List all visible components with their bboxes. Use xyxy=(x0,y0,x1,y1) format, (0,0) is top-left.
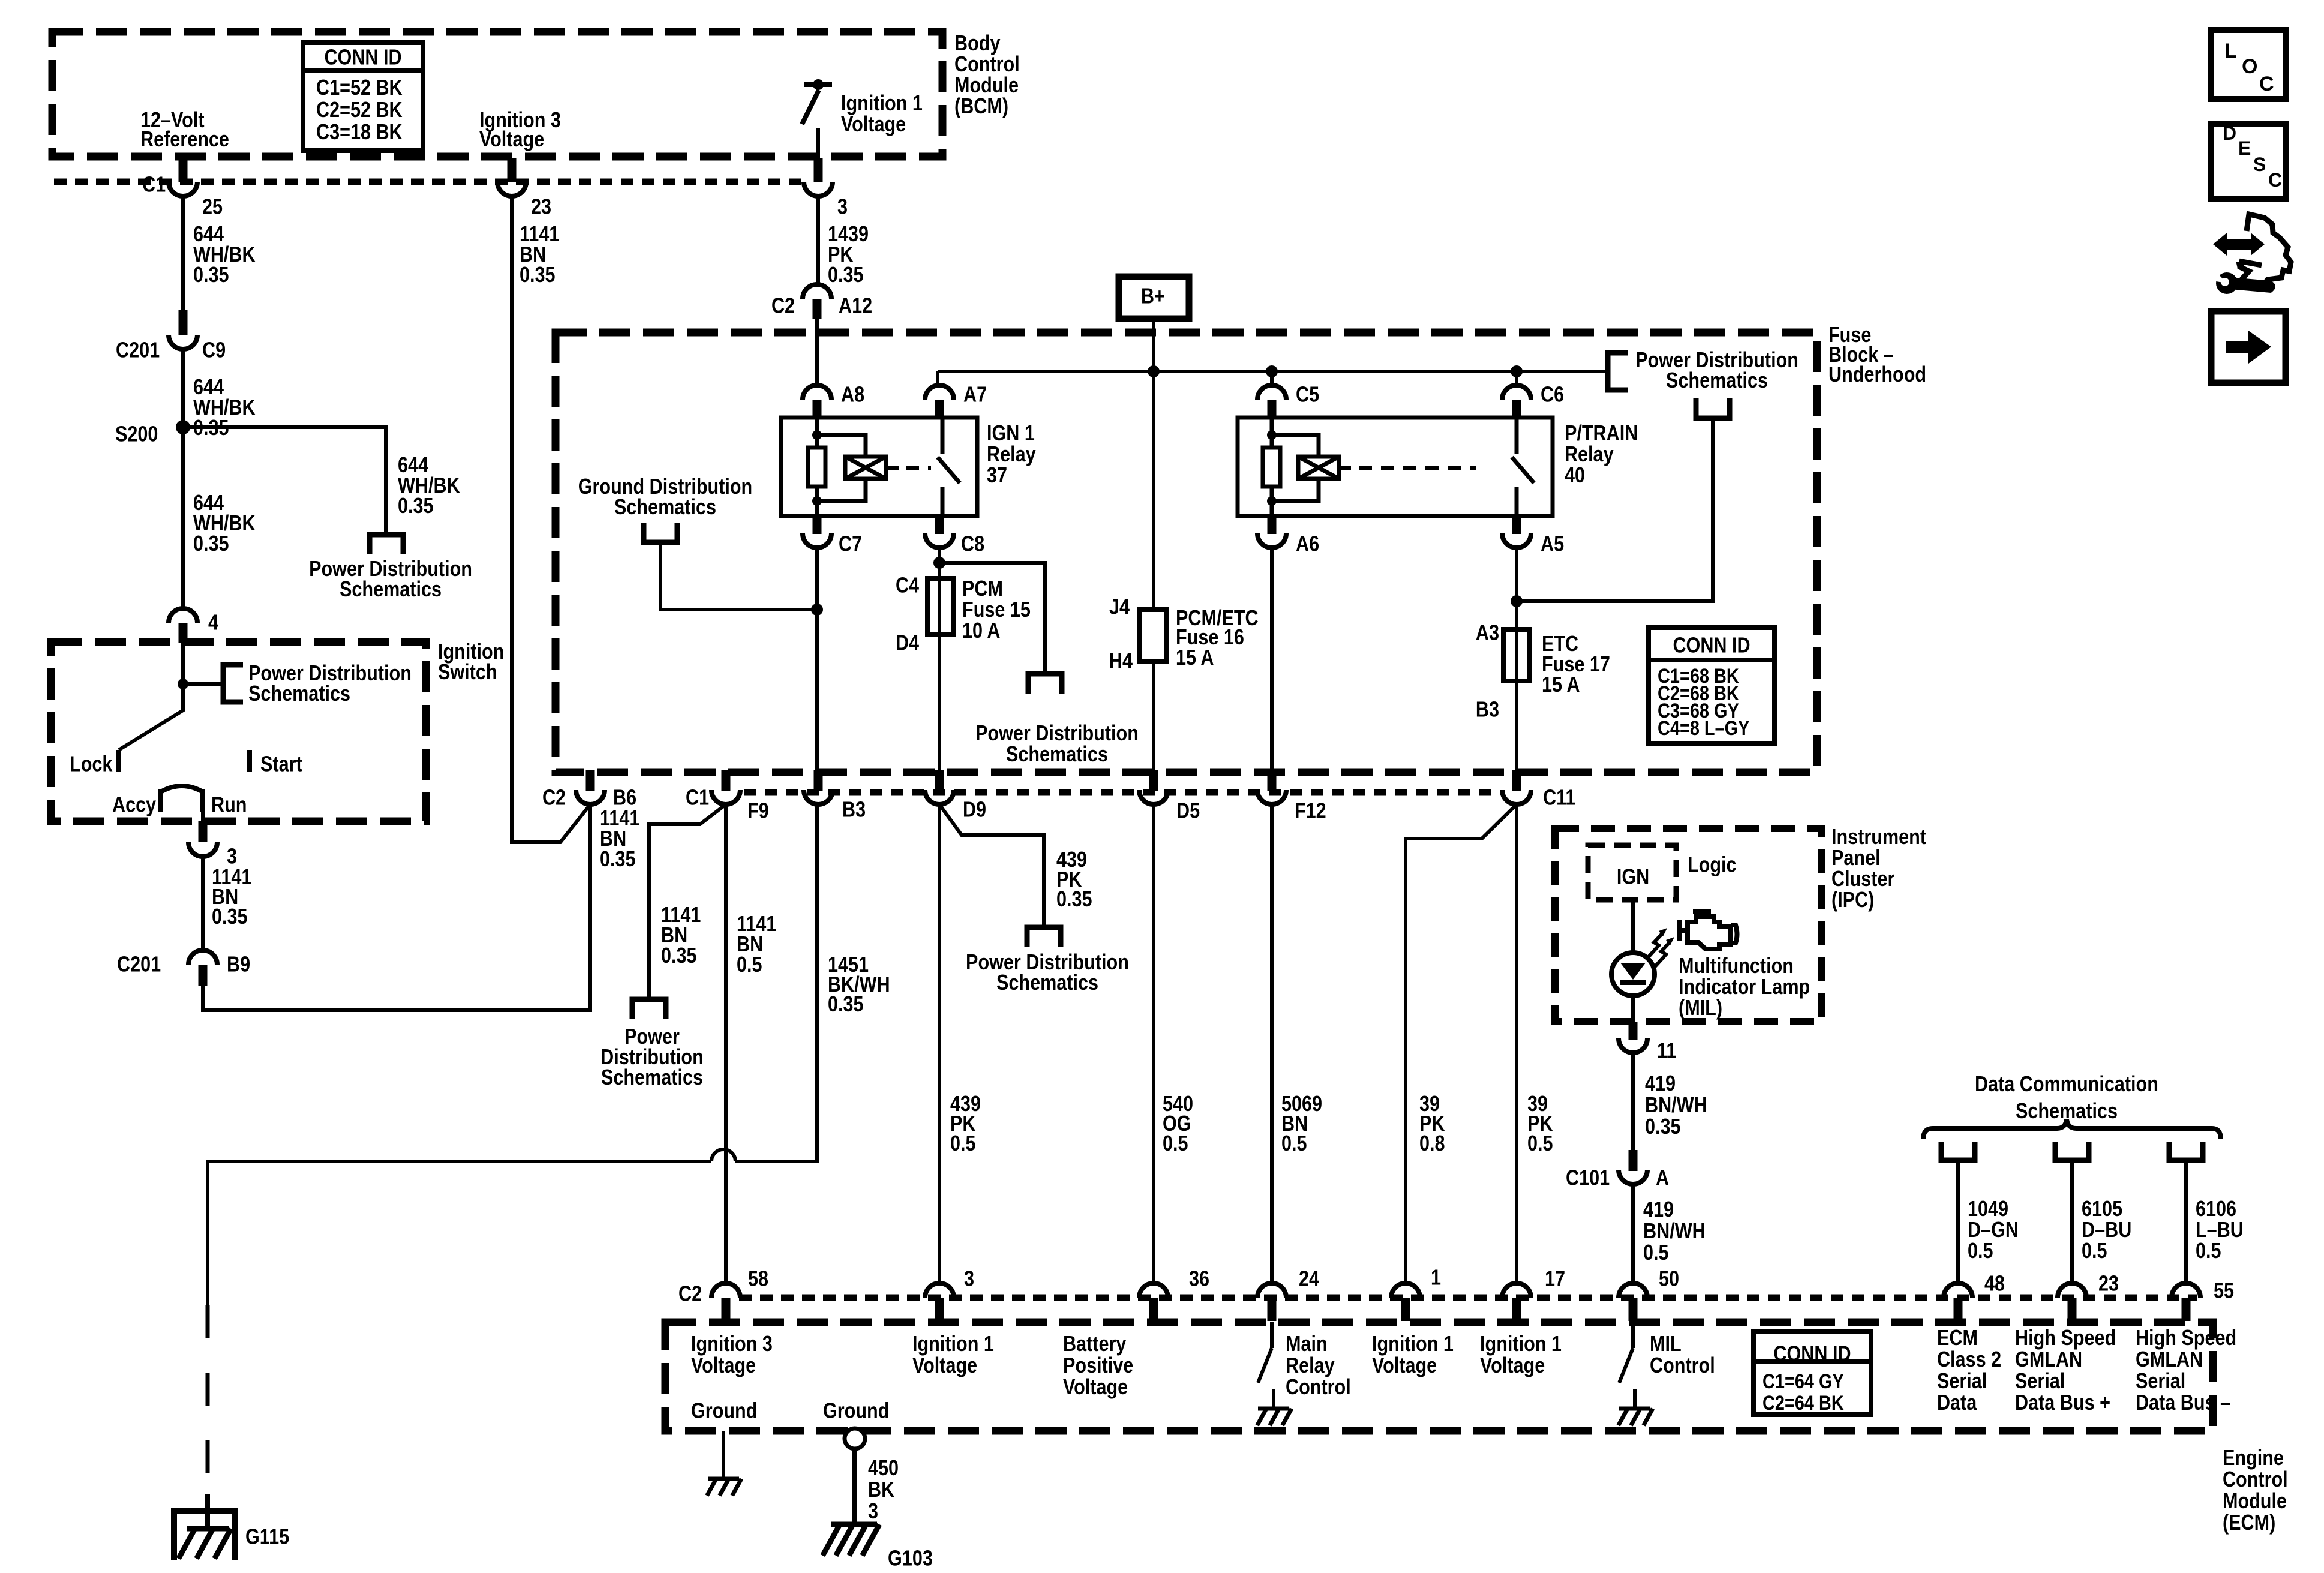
ECM CONN ID separator xyxy=(1753,1359,1871,1364)
svg-text:C201: C201 xyxy=(116,338,160,362)
PTRAIN relay top node xyxy=(1267,430,1277,440)
wire 450 BK to G103 xyxy=(852,1449,857,1524)
svg-text:C2: C2 xyxy=(542,786,566,810)
connector B6 (fuse block bottom) xyxy=(576,790,605,804)
wire from BCM Ignition1 switch to pin 3 xyxy=(816,128,820,180)
svg-text:23: 23 xyxy=(531,195,551,219)
svg-text:A3: A3 xyxy=(1476,621,1499,645)
MIL lightning arrow 1 xyxy=(1648,933,1662,957)
stub ignition switch output 3 xyxy=(199,821,208,842)
PTRAIN relay coil left wire xyxy=(1270,418,1274,516)
ground G103 xyxy=(822,1524,879,1556)
wire ground distribution to C7 wire xyxy=(660,542,817,610)
fuse CONN ID separator xyxy=(1649,658,1774,662)
svg-text:Logic: Logic xyxy=(1688,853,1737,877)
dashed wire to G115 xyxy=(206,1305,210,1495)
wire data bus 3454 to ECM xyxy=(2070,1160,2074,1283)
PTRAIN relay switch blade xyxy=(1512,457,1534,483)
svg-text:CONN ID: CONN ID xyxy=(1673,634,1750,658)
junction C6 on bus xyxy=(1511,365,1523,377)
PCM Fuse 15 body xyxy=(927,578,953,634)
svg-text:A: A xyxy=(1656,1166,1669,1190)
MIL LED cathode bar xyxy=(1620,980,1646,985)
svg-text:D4: D4 xyxy=(896,631,919,655)
svg-text:C201: C201 xyxy=(117,953,161,977)
svg-text:C4: C4 xyxy=(896,574,919,598)
svg-text:C9: C9 xyxy=(202,338,226,362)
stub C8 xyxy=(935,516,944,534)
MIL Control switch lower xyxy=(1633,1389,1637,1407)
svg-text:A12: A12 xyxy=(839,294,872,318)
connector 3 (ignition switch output) xyxy=(188,842,217,857)
PTRAIN relay coil X xyxy=(1298,457,1339,479)
wire 644 WH/BK C201 to S200 xyxy=(181,349,185,608)
svg-text:A5: A5 xyxy=(1541,532,1564,556)
brace (data communication) xyxy=(1923,1119,2221,1139)
splice S200 xyxy=(176,420,190,434)
junction dot on Ignition 1 switch bar xyxy=(813,79,824,90)
Start contact tick xyxy=(247,750,252,772)
wire A12 to relay A8 xyxy=(815,319,819,385)
connector ECM pin 48 xyxy=(1944,1283,1972,1298)
svg-text:Lock: Lock xyxy=(70,752,113,776)
stub ECM pin 55 xyxy=(2182,1298,2191,1321)
PTRAIN relay coil branch xyxy=(1272,435,1319,501)
stub A5 xyxy=(1512,516,1521,534)
svg-text:Start: Start xyxy=(260,752,302,776)
wire F12 to ECM 24 xyxy=(1270,804,1274,1283)
IGN1 relay coil left wire xyxy=(815,418,819,516)
ETC Fuse 17 body xyxy=(1503,629,1530,681)
wire data bus 3644 to ECM xyxy=(2184,1160,2188,1283)
branch A5 junction to power dist tag xyxy=(1517,421,1713,601)
stub A12 xyxy=(813,299,822,319)
connector ECM pin 55 xyxy=(2172,1283,2200,1298)
svg-text:24: 24 xyxy=(1299,1267,1319,1291)
svg-text:S200: S200 xyxy=(115,422,158,446)
stub ECM pin 17 xyxy=(1512,1298,1521,1321)
off-page bracket (439 branch) xyxy=(1027,927,1061,947)
svg-text:F9: F9 xyxy=(747,799,769,823)
wire 419 BN/WH IPC to C101 xyxy=(1631,1053,1635,1150)
PTRAIN relay actuation dashed link xyxy=(1359,466,1476,470)
stub BCM pin 3 xyxy=(814,158,823,182)
svg-text:C: C xyxy=(2259,73,2274,95)
stub C7 xyxy=(813,516,822,534)
svg-text:J4: J4 xyxy=(1109,595,1130,619)
IGN1 relay bottom node xyxy=(812,496,822,506)
stub ECM pin 3 xyxy=(935,1298,944,1321)
stub ECM pin 48 xyxy=(1954,1298,1963,1321)
BCM CONN ID box xyxy=(303,43,423,151)
svg-text:17: 17 xyxy=(1545,1267,1565,1291)
svg-text:55: 55 xyxy=(2214,1279,2234,1303)
BCM internal bar for Ignition 1 switch xyxy=(804,82,832,87)
wire B3 down to ground run xyxy=(735,804,817,1161)
Engine Control Module dashed box xyxy=(665,1322,2213,1431)
wire 644 WH/BK C1-25 to C201 xyxy=(181,196,185,310)
internal ground (MIL control) xyxy=(1619,1409,1653,1425)
svg-text:C7: C7 xyxy=(839,532,862,556)
connector C8 xyxy=(925,533,954,548)
svg-text:CONN ID: CONN ID xyxy=(324,46,401,70)
svg-text:D5: D5 xyxy=(1176,799,1200,823)
connector ECM pin 17 xyxy=(1502,1283,1531,1298)
PTRAIN relay switch fixed bottom xyxy=(1515,487,1519,516)
Accy-Run contact arc xyxy=(161,786,203,792)
wire 1439 PK BCM-3 to A12 xyxy=(816,196,820,284)
BCM CONN ID separator xyxy=(303,68,423,73)
wire C8 down through PCM fuse to D9 xyxy=(938,548,941,774)
connector B3 (fuse block bottom) xyxy=(804,790,833,804)
connector pin 4 (ignition switch) xyxy=(169,608,197,623)
IGN1 relay coil branch xyxy=(817,435,866,501)
connector C6 xyxy=(1502,385,1531,400)
connector A8 xyxy=(803,385,831,400)
wire C201-B9 to fuse block B6 xyxy=(203,804,590,1010)
connector D5 (fuse block bottom) xyxy=(1139,790,1168,804)
svg-text:C1=52 BKC2=52 BKC3=18 BK: C1=52 BKC2=52 BKC3=18 BK xyxy=(316,76,403,144)
svg-text:C2: C2 xyxy=(771,294,795,318)
stub C201-C9 xyxy=(179,310,188,335)
IGN1 relay switch fixed bottom xyxy=(941,487,945,516)
wire D9 to ECM 3 xyxy=(938,804,941,1283)
connector ECM pin 58 xyxy=(711,1283,740,1298)
connector 11 (IPC) xyxy=(1619,1038,1647,1053)
wire data bus 3264 to ECM xyxy=(1956,1160,1960,1283)
Run contact tick xyxy=(200,789,205,812)
IGN1 relay switch blade xyxy=(938,457,960,483)
IGN logic boxlet xyxy=(1588,845,1676,900)
IGN1 relay top node xyxy=(812,430,822,440)
stub IPC pin 11 xyxy=(1629,1022,1638,1040)
wire C11 to ECM 17 xyxy=(1515,804,1518,1283)
off-page bracket (ground distribution) xyxy=(644,523,677,542)
PTRAIN relay coil tab xyxy=(1339,466,1351,470)
svg-text:1: 1 xyxy=(1431,1266,1441,1290)
IGN1 relay coil tab xyxy=(886,466,899,470)
PCM/ETC Fuse 16 body xyxy=(1140,610,1166,661)
connector pin 3 (BCM) xyxy=(804,182,833,196)
svg-text:CONN ID: CONN ID xyxy=(1773,1342,1851,1366)
svg-text:C101: C101 xyxy=(1566,1166,1610,1190)
stub C201-B9 xyxy=(199,965,208,986)
junction C5 on bus xyxy=(1266,365,1278,377)
connector C101 pin A xyxy=(1619,1170,1647,1184)
Body Control Module (BCM) dashed box xyxy=(52,32,942,157)
svg-text:50: 50 xyxy=(1659,1267,1679,1291)
off-page bracket (data bus 3644) xyxy=(2169,1142,2203,1160)
stub ECM pin 24 xyxy=(1268,1298,1277,1321)
svg-text:23: 23 xyxy=(2098,1272,2119,1296)
wire C7 down to B3 xyxy=(815,548,819,774)
connector ECM pin 1 xyxy=(1391,1283,1420,1298)
off-page bracket (S200 branch) xyxy=(370,535,403,554)
stub BCM pin 25 xyxy=(179,158,188,182)
off-page bracket (ignition switch feed) xyxy=(223,665,243,702)
stub A8 xyxy=(813,400,822,419)
stub fuse block pin C11 xyxy=(1512,770,1521,791)
svg-text:C1=64 GYC2=64 BK: C1=64 GYC2=64 BK xyxy=(1762,1370,1844,1415)
stub fuse block pin D9 xyxy=(935,770,944,791)
G115 wire tail xyxy=(205,1494,210,1529)
connector C5 xyxy=(1257,385,1286,400)
wire D9 diagonal branch xyxy=(939,804,1044,925)
Fuse Block - Underhood dashed box xyxy=(556,332,1817,772)
svg-text:B+: B+ xyxy=(1141,284,1165,308)
Accy contact tick xyxy=(158,789,163,812)
connector C11 (fuse block bottom) xyxy=(1502,790,1531,804)
service icon wrench xyxy=(2216,272,2238,294)
stub BCM pin 23 xyxy=(508,158,517,182)
service icon double arrow xyxy=(2213,233,2265,256)
IGN1 relay resistor xyxy=(808,448,825,487)
LOC icon box xyxy=(2211,30,2286,99)
branch wire S200 to power distribution tag xyxy=(183,427,386,535)
wire B+ box to bus xyxy=(1152,319,1155,371)
svg-text:A6: A6 xyxy=(1296,532,1319,556)
MIL lightning arrow 2 xyxy=(1655,942,1670,966)
wire bus B+ down to PCM/ETC fuse xyxy=(1152,371,1155,610)
svg-text:C11: C11 xyxy=(1543,786,1575,810)
stub fuse block pin B6 xyxy=(586,770,595,791)
svg-text:C2: C2 xyxy=(678,1282,702,1306)
wire C1-F9 diagonal to power dist tag xyxy=(649,804,726,999)
BCM connector row dotted line xyxy=(54,179,804,185)
svg-text:O: O xyxy=(2242,55,2257,78)
P/TRAIN relay box xyxy=(1238,418,1553,516)
PTRAIN relay coil box xyxy=(1298,457,1339,479)
Ignition 1 switch blade (BCM) xyxy=(802,90,819,124)
connector ECM pin 3 xyxy=(925,1283,954,1298)
IGN1 relay actuation dashed link xyxy=(906,466,931,470)
stub ECM pin 1 xyxy=(1401,1298,1410,1321)
wire MIL lamp to IPC pin 11 xyxy=(1631,993,1635,1022)
Fuse block CONN ID box xyxy=(1649,628,1774,743)
wire fuse16 to D5 xyxy=(1152,661,1155,774)
svg-text:A7: A7 xyxy=(963,383,987,407)
svg-text:Accy: Accy xyxy=(112,793,157,817)
bus corner down to C6 xyxy=(1515,371,1518,386)
svg-text:B3: B3 xyxy=(1476,698,1499,722)
svg-text:25: 25 xyxy=(202,195,223,219)
wire ignition3 voltage 23 to B6 xyxy=(512,196,590,842)
PTRAIN relay switch fixed top xyxy=(1515,418,1519,454)
svg-text:S: S xyxy=(2253,154,2266,175)
connector C1-F9 (fuse block bottom) xyxy=(711,790,740,804)
svg-text:IgnitionSwitch: IgnitionSwitch xyxy=(438,640,504,684)
stub C6 xyxy=(1512,400,1521,419)
svg-text:C1=68 BKC2=68 BKC3=68 GYC4=8 L: C1=68 BKC2=68 BKC3=68 GYC4=8 L–GY xyxy=(1658,664,1749,740)
off-page bracket (data bus 3454) xyxy=(2055,1142,2089,1160)
eyelet connector G103 wire xyxy=(845,1428,865,1449)
wire ECM ground left xyxy=(722,1431,725,1477)
bus corner down to A7 xyxy=(936,371,939,385)
svg-text:C: C xyxy=(2268,169,2282,191)
connector A5 xyxy=(1502,533,1531,548)
Main Relay Control switch wire xyxy=(1270,1322,1274,1348)
connector pin 23 (BCM) xyxy=(497,182,526,196)
svg-text:C1: C1 xyxy=(686,786,709,810)
stub ECM pin 50 xyxy=(1629,1298,1638,1321)
Main Relay Control switch lower xyxy=(1272,1389,1275,1407)
svg-text:F12: F12 xyxy=(1295,799,1326,823)
Run wire down to connector 3 xyxy=(201,792,205,824)
wire pin4 to switch junction xyxy=(181,643,185,684)
engine icon (check engine) xyxy=(1680,911,1737,949)
off-page bracket (bus feed) xyxy=(1608,353,1628,390)
connector ECM pin 24 xyxy=(1257,1283,1286,1298)
svg-text:3: 3 xyxy=(964,1267,974,1291)
junction inside ignition switch xyxy=(178,679,188,689)
MIL Control switch blade xyxy=(1619,1348,1633,1383)
ECM CONN ID box xyxy=(1753,1331,1871,1415)
stub ECM pin 23 xyxy=(2068,1298,2077,1321)
ground G115 xyxy=(179,1529,232,1559)
svg-text:48: 48 xyxy=(1984,1272,2005,1296)
svg-text:C5: C5 xyxy=(1296,383,1319,407)
svg-text:3: 3 xyxy=(837,195,848,219)
wire 1141 BN conn3 to C201-B9 xyxy=(201,857,205,950)
wire D5 to ECM 36 xyxy=(1152,804,1155,1283)
svg-text:Ground: Ground xyxy=(691,1399,757,1423)
svg-text:B9: B9 xyxy=(227,953,250,977)
svg-text:IGN: IGN xyxy=(1617,865,1649,889)
underhood harness connector dotted row xyxy=(744,789,1500,796)
IGN 1 relay box xyxy=(781,418,977,516)
forward arrow icon box xyxy=(2211,311,2286,383)
wire A6 down to F12 xyxy=(1270,548,1274,774)
stub C101-A xyxy=(1629,1150,1638,1171)
junction below C8 xyxy=(933,557,945,569)
B+ power tag box xyxy=(1119,277,1189,319)
svg-text:58: 58 xyxy=(748,1267,768,1291)
wire F9 to ECM 58 xyxy=(724,804,728,1283)
wire C11 diagonal to ECM 1 xyxy=(1406,804,1517,1283)
PTRAIN relay bottom node xyxy=(1267,496,1277,506)
DESC icon box xyxy=(2211,124,2286,199)
svg-text:D9: D9 xyxy=(963,798,986,822)
svg-text:D: D xyxy=(2223,122,2236,144)
service icon small arrow xyxy=(2240,262,2262,269)
ECM connector row dotted line xyxy=(739,1295,2197,1301)
stub A7 xyxy=(935,400,944,419)
MIL LED circle xyxy=(1611,953,1655,996)
connector ECM pin 36 xyxy=(1139,1283,1168,1298)
connector ECM pin 50 xyxy=(1619,1283,1647,1298)
junction B+ on bus xyxy=(1148,365,1160,377)
svg-text:G115: G115 xyxy=(245,1525,289,1549)
wire junction to power dist bracket (ignition switch) xyxy=(183,682,223,686)
service icon outline xyxy=(2239,214,2291,286)
connector C1 pin 25 (BCM) xyxy=(169,182,197,196)
off-page bracket (ETC feed) xyxy=(1696,398,1730,418)
IGN1 relay coil X xyxy=(845,457,886,479)
ignition switch blade to Lock xyxy=(119,684,183,750)
hop over F9 wire xyxy=(711,1149,735,1161)
connector A7 xyxy=(925,385,954,400)
stub fuse block pin D5 xyxy=(1149,770,1158,791)
connector F12 (fuse block bottom) xyxy=(1257,790,1286,804)
G115 bracket xyxy=(174,1511,235,1560)
svg-text:BatteryPositiveVoltage: BatteryPositiveVoltage xyxy=(1063,1332,1133,1399)
PTRAIN relay resistor xyxy=(1263,448,1280,487)
svg-text:H4: H4 xyxy=(1109,649,1133,673)
IGN1 relay switch fixed top xyxy=(941,418,945,454)
Lock contact tick xyxy=(116,750,121,772)
stub ECM pin 58 xyxy=(722,1298,731,1321)
svg-text:C6: C6 xyxy=(1541,383,1564,407)
svg-text:Ground: Ground xyxy=(823,1399,889,1423)
stub fuse block pin F12 xyxy=(1268,770,1277,791)
branch C8 to power dist tag xyxy=(939,563,1045,674)
svg-text:C8: C8 xyxy=(961,532,984,556)
connector C201 pin C9 xyxy=(169,335,197,349)
Ignition Switch dashed box xyxy=(51,642,426,821)
svg-text:Run: Run xyxy=(211,793,247,817)
IGN1 relay coil box xyxy=(845,457,886,479)
wire ground run to G115 drop xyxy=(208,1161,711,1305)
MIL Control switch wire xyxy=(1631,1322,1635,1348)
bus stub down to C5 xyxy=(1270,371,1274,386)
off-page bracket (1141 branch) xyxy=(632,999,666,1019)
Main Relay Control switch blade xyxy=(1258,1348,1272,1383)
connector A6 xyxy=(1257,533,1286,548)
junction below A5 xyxy=(1511,595,1523,607)
wire A5 down through ETC fuse to C11 xyxy=(1515,548,1518,774)
connector C7 xyxy=(803,533,831,548)
svg-text:L: L xyxy=(2224,40,2237,62)
svg-text:G103: G103 xyxy=(888,1547,933,1571)
MIL LED triangle xyxy=(1620,963,1646,980)
svg-text:11: 11 xyxy=(1657,1039,1676,1063)
wire IGN to MIL lamp xyxy=(1631,900,1635,954)
connector ECM pin 23 xyxy=(2058,1283,2086,1298)
connector C2-A12 xyxy=(803,284,831,299)
internal ground (main relay control) xyxy=(1257,1409,1292,1425)
stub ECM pin 36 xyxy=(1149,1298,1158,1321)
svg-text:4: 4 xyxy=(208,611,218,635)
stub A6 xyxy=(1268,516,1277,534)
forward arrow xyxy=(2226,331,2271,364)
stub C5 xyxy=(1268,400,1277,419)
svg-text:36: 36 xyxy=(1189,1267,1209,1291)
svg-text:B3: B3 xyxy=(842,798,866,822)
svg-text:C1: C1 xyxy=(142,173,166,197)
svg-text:E: E xyxy=(2238,137,2251,159)
ground symbol (ECM left ground) xyxy=(707,1479,741,1496)
junction on C7-B3 wire xyxy=(811,604,823,616)
connector D9 (fuse block bottom) xyxy=(925,790,954,804)
off-page bracket (PCM fuse branch) xyxy=(1028,674,1062,694)
connector C201 pin B9 xyxy=(188,950,217,965)
off-page bracket (data bus 3264) xyxy=(1941,1142,1975,1160)
Instrument Panel Cluster dashed box xyxy=(1555,828,1822,1022)
stub fuse block pin B3 xyxy=(814,770,823,791)
stub ignition switch pin 4 xyxy=(179,623,188,643)
stub fuse block pin C1-F9 xyxy=(722,770,731,791)
wire 419 BN/WH C101 to ECM 50 xyxy=(1631,1184,1635,1283)
B+ bus across fuse block xyxy=(938,370,1608,373)
svg-text:A8: A8 xyxy=(841,383,864,407)
